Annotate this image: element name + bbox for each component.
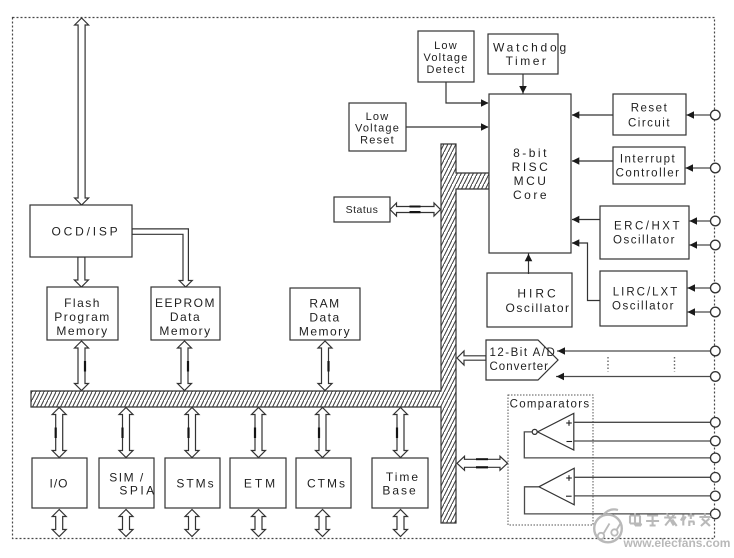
svg-text:RAM: RAM <box>309 297 340 311</box>
svg-text:ERC/HXT: ERC/HXT <box>614 221 682 233</box>
svg-text:SIM /: SIM / <box>109 471 145 485</box>
svg-text:Data: Data <box>170 310 201 324</box>
svg-text:Oscillator: Oscillator <box>613 235 676 247</box>
svg-text:Reset: Reset <box>360 134 395 146</box>
svg-text:Controller: Controller <box>616 168 681 180</box>
svg-text:Circuit: Circuit <box>628 118 671 130</box>
svg-text:OCD/ISP: OCD/ISP <box>52 225 121 239</box>
svg-text:Oscillator: Oscillator <box>505 301 570 315</box>
svg-text:Comparators: Comparators <box>510 399 591 411</box>
svg-text:Watchdog: Watchdog <box>493 40 569 54</box>
svg-text:MCU: MCU <box>514 174 549 188</box>
svg-text:Program: Program <box>54 310 111 324</box>
svg-text:8-bit: 8-bit <box>513 146 549 160</box>
svg-text:Data: Data <box>309 311 340 325</box>
svg-text:ETM: ETM <box>244 476 278 490</box>
svg-text:Memory: Memory <box>56 324 108 338</box>
svg-text:Detect: Detect <box>427 64 466 76</box>
svg-text:RISC: RISC <box>512 160 551 174</box>
svg-text:Low: Low <box>434 40 458 52</box>
svg-text:EEPROM: EEPROM <box>155 296 216 310</box>
svg-text:STMs: STMs <box>176 476 215 490</box>
svg-text:Interrupt: Interrupt <box>620 154 676 166</box>
svg-text:Status: Status <box>346 204 379 216</box>
svg-text:Converter: Converter <box>490 361 550 373</box>
svg-text:Base: Base <box>382 484 417 498</box>
svg-text:www.elecfans.com: www.elecfans.com <box>623 536 731 550</box>
svg-text:Voltage: Voltage <box>355 123 400 135</box>
svg-text:Voltage: Voltage <box>423 52 468 64</box>
svg-text:SPIA: SPIA <box>119 484 156 498</box>
svg-text:Core: Core <box>513 188 549 202</box>
svg-text:Time: Time <box>386 470 420 484</box>
svg-text:Flash: Flash <box>64 296 101 310</box>
svg-text:Timer: Timer <box>506 54 549 68</box>
svg-text:12-Bit A/D: 12-Bit A/D <box>490 347 557 359</box>
svg-text:Reset: Reset <box>631 103 669 115</box>
svg-text:Low: Low <box>366 111 390 123</box>
svg-text:Memory: Memory <box>299 325 351 339</box>
svg-text:Memory: Memory <box>159 324 211 338</box>
svg-text:HIRC: HIRC <box>517 287 558 301</box>
svg-text:Oscillator: Oscillator <box>612 301 675 313</box>
svg-text:CTMs: CTMs <box>307 476 347 490</box>
svg-text:I/O: I/O <box>49 476 68 490</box>
svg-text:LIRC/LXT: LIRC/LXT <box>613 287 680 299</box>
